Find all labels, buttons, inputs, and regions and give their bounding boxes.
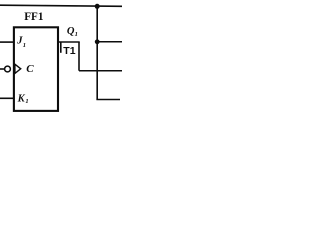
wire K input — [0, 97, 14, 99]
block T1 partial outline right edge — [78, 42, 80, 71]
wire bottom corner branch — [97, 98, 120, 101]
edge-trigger triangle — [15, 64, 21, 73]
svg-text:C: C — [26, 63, 34, 75]
block T1 partial outline left stub — [60, 42, 62, 53]
svg-text:K: K — [17, 93, 26, 104]
svg-text:FF1: FF1 — [24, 11, 44, 23]
inversion bubble on clock — [5, 66, 11, 72]
svg-text:T1: T1 — [63, 45, 75, 57]
wire clock input — [0, 68, 5, 70]
node junction dot middle — [95, 39, 100, 44]
wire Q1 output to block T1 — [58, 41, 80, 43]
node junction dot top — [95, 4, 100, 9]
flip-flop FF1 box — [14, 27, 58, 111]
wire vertical rail — [96, 6, 98, 100]
svg-text:1: 1 — [25, 98, 28, 105]
svg-text:1: 1 — [75, 31, 78, 38]
wire horizontal crossing rail — [79, 70, 122, 72]
wire branch right at node — [97, 41, 122, 43]
wire top rail — [0, 5, 122, 6]
wire J input — [0, 41, 14, 43]
svg-text:1: 1 — [23, 42, 26, 49]
